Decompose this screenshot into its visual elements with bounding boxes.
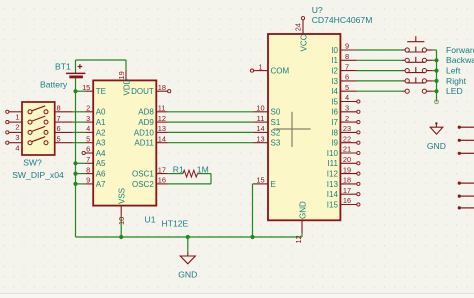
pushbutton SW Left (403, 57, 433, 73)
svg-text:17: 17 (158, 165, 166, 174)
svg-text:19: 19 (343, 165, 351, 174)
svg-text:13: 13 (256, 134, 264, 143)
wire battery minus / GND vertical bus (75, 77, 77, 237)
svg-text:14: 14 (158, 134, 166, 143)
wire mux GND pin (301, 233, 303, 237)
svg-text:1: 1 (258, 62, 262, 71)
svg-text:A6: A6 (96, 170, 106, 179)
svg-text:U1: U1 (145, 215, 156, 225)
svg-text:S3: S3 (271, 139, 281, 148)
svg-text:COM: COM (271, 67, 290, 76)
wire pushbutton outputs bus (433, 50, 439, 104)
svg-text:R1: R1 (173, 165, 184, 175)
svg-text:10: 10 (117, 217, 126, 225)
svg-text:I11: I11 (327, 159, 338, 168)
svg-text:6: 6 (86, 145, 90, 154)
wire SW pin 6 to A2 (73, 131, 86, 133)
wire I1 to pushbutton (357, 59, 403, 61)
svg-text:11: 11 (158, 104, 166, 113)
svg-text:22: 22 (343, 134, 351, 143)
svg-text:2: 2 (345, 114, 349, 123)
svg-text:20: 20 (343, 155, 351, 164)
wire AD9 to S1 (168, 121, 254, 123)
wire OSC1 to R1 (168, 173, 183, 175)
svg-text:GND: GND (299, 201, 308, 219)
svg-text:6: 6 (345, 73, 349, 82)
svg-text:15: 15 (256, 176, 264, 185)
svg-text:A2: A2 (96, 128, 106, 137)
svg-text:23: 23 (343, 124, 351, 133)
svg-text:A0: A0 (96, 108, 106, 117)
svg-text:8: 8 (345, 52, 349, 61)
svg-text:I10: I10 (327, 149, 339, 158)
svg-text:8: 8 (57, 104, 61, 113)
svg-text:9: 9 (345, 42, 349, 51)
svg-text:3: 3 (15, 133, 19, 142)
net label Forward (446, 45, 474, 55)
wire I4 to pushbutton (357, 90, 403, 92)
svg-text:4: 4 (345, 93, 349, 102)
svg-text:I3: I3 (331, 77, 338, 86)
cursor crosshair (274, 112, 311, 147)
svg-text:I14: I14 (327, 190, 339, 199)
svg-text:Right: Right (446, 76, 467, 86)
svg-text:11: 11 (257, 114, 265, 123)
svg-text:A5: A5 (96, 159, 106, 168)
wire E to GND net (250, 184, 254, 239)
wire battery plus to VDD (76, 60, 127, 73)
ground GND (center) (178, 252, 197, 280)
wire SW pin 7 to A1 (73, 121, 86, 123)
wire AD10 to S2 (168, 131, 254, 133)
svg-text:15: 15 (82, 83, 90, 92)
svg-text:3: 3 (86, 114, 90, 123)
svg-text:CD74HC4067M: CD74HC4067M (312, 15, 373, 25)
svg-text:13: 13 (158, 124, 166, 133)
svg-text:I9: I9 (331, 139, 338, 148)
wire AD8 to S0 (168, 111, 254, 113)
svg-text:GND: GND (178, 270, 197, 280)
ground GND (right, floating) (427, 122, 446, 151)
net label LED (446, 86, 463, 96)
svg-text:I15: I15 (327, 200, 339, 209)
svg-text:S1: S1 (271, 118, 281, 127)
wire AD11 to S3 (168, 142, 254, 144)
svg-text:2: 2 (86, 104, 90, 113)
svg-text:19: 19 (117, 71, 126, 79)
svg-text:24: 24 (293, 23, 302, 31)
svg-text:HT12E: HT12E (162, 218, 189, 228)
svg-text:LED: LED (446, 86, 463, 96)
svg-text:10: 10 (256, 104, 264, 113)
svg-text:8: 8 (86, 165, 90, 174)
svg-text:BT1: BT1 (55, 61, 71, 71)
svg-text:I8: I8 (331, 128, 338, 137)
svg-text:SW?: SW? (23, 157, 42, 167)
svg-text:4: 4 (86, 124, 90, 133)
svg-text:12: 12 (294, 235, 303, 243)
wire I0 to pushbutton (357, 49, 403, 51)
svg-text:A4: A4 (96, 149, 106, 158)
net label Left (446, 66, 461, 76)
svg-text:Backward: Backward (446, 55, 474, 65)
svg-text:7: 7 (57, 114, 61, 123)
svg-text:12: 12 (158, 114, 166, 123)
svg-text:16: 16 (343, 196, 351, 205)
svg-text:GND: GND (427, 141, 446, 151)
svg-text:I5: I5 (331, 97, 338, 106)
svg-text:AD8: AD8 (138, 108, 154, 117)
svg-text:I4: I4 (331, 87, 338, 96)
svg-text:A3: A3 (96, 139, 106, 148)
battery BT1 (40, 61, 85, 89)
svg-text:5: 5 (86, 134, 90, 143)
svg-text:U?: U? (312, 5, 323, 15)
svg-text:OSC1: OSC1 (132, 170, 154, 179)
svg-text:21: 21 (343, 145, 351, 154)
wire to ground symbol (186, 235, 190, 252)
svg-text:Forward: Forward (446, 45, 474, 55)
svg-text:A1: A1 (96, 118, 106, 127)
wire bus to A5 (73, 161, 85, 165)
wire SW pin 5 to A3 (73, 142, 86, 144)
svg-text:I2: I2 (331, 67, 338, 76)
svg-text:VCC: VCC (299, 34, 308, 51)
svg-text:16: 16 (158, 176, 166, 185)
pushbutton SW Right (403, 67, 433, 83)
svg-text:5: 5 (345, 83, 349, 92)
svg-text:A7: A7 (96, 180, 106, 189)
svg-text:18: 18 (343, 176, 351, 185)
svg-text:TE: TE (96, 87, 106, 96)
wire I3 to pushbutton (357, 80, 403, 82)
wire I2 to pushbutton (357, 70, 403, 72)
svg-text:OSC2: OSC2 (132, 180, 154, 189)
svg-text:6: 6 (57, 124, 61, 133)
svg-text:AD9: AD9 (138, 118, 154, 127)
svg-text:7: 7 (86, 155, 90, 164)
junction battery minus TE (73, 89, 77, 93)
pushbutton SW Forward (403, 36, 433, 52)
svg-text:4: 4 (15, 143, 19, 152)
wire R1 to OSC2 loop (168, 174, 211, 184)
net label Backward (446, 55, 474, 65)
svg-text:17: 17 (343, 186, 351, 195)
connector pins (clipped component at right edge) (458, 126, 474, 210)
svg-text:9: 9 (86, 176, 90, 185)
svg-text:5: 5 (57, 134, 61, 143)
svg-text:S2: S2 (271, 128, 281, 137)
svg-text:VSS: VSS (118, 188, 127, 204)
IC U1 HT12E (82, 71, 189, 229)
svg-text:I7: I7 (331, 118, 338, 127)
svg-text:I0: I0 (331, 46, 338, 55)
svg-text:SW_DIP_x04: SW_DIP_x04 (12, 170, 64, 180)
svg-text:7: 7 (345, 62, 349, 71)
svg-text:AD11: AD11 (134, 139, 154, 148)
net label Right (446, 76, 467, 86)
wire bus to A6 (73, 172, 85, 176)
svg-text:14: 14 (256, 124, 264, 133)
svg-text:2: 2 (15, 123, 19, 132)
wire GND bottom horizontal (76, 236, 303, 238)
svg-text:I12: I12 (327, 170, 339, 179)
svg-text:I1: I1 (331, 56, 338, 65)
wire bus to A7 (73, 182, 85, 186)
switch SW? SW_DIP_x04 (6, 102, 73, 180)
svg-text:3: 3 (345, 104, 349, 113)
IC U? CD74HC4067M (250, 5, 372, 243)
svg-text:18: 18 (158, 83, 166, 92)
svg-text:Left: Left (446, 66, 461, 76)
svg-text:AD10: AD10 (134, 128, 155, 137)
svg-text:1M: 1M (197, 165, 209, 175)
pushbutton SW Backward (403, 47, 433, 63)
wire VSS to GND net (119, 216, 123, 239)
svg-text:S0: S0 (271, 108, 281, 117)
resistor R1 1M (173, 165, 209, 177)
pushbutton SW LED (403, 77, 433, 93)
wire SW pin 8 to A0 (73, 111, 86, 113)
svg-text:1: 1 (15, 112, 19, 121)
svg-text:I13: I13 (327, 180, 339, 189)
svg-text:I6: I6 (331, 108, 338, 117)
svg-text:Battery: Battery (40, 80, 68, 90)
svg-text:DOUT: DOUT (131, 87, 154, 96)
wire TE to battery bus (76, 90, 86, 92)
svg-text:VDD: VDD (122, 78, 131, 95)
svg-text:E: E (271, 180, 276, 189)
